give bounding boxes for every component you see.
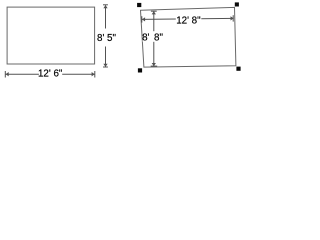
svg-text:8': 8' <box>142 33 149 44</box>
svg-text:12' 8": 12' 8" <box>176 16 201 27</box>
svg-text:8' 5": 8' 5" <box>97 33 116 44</box>
svg-text:12' 6": 12' 6" <box>38 69 63 80</box>
svg-text:8": 8" <box>154 33 163 44</box>
